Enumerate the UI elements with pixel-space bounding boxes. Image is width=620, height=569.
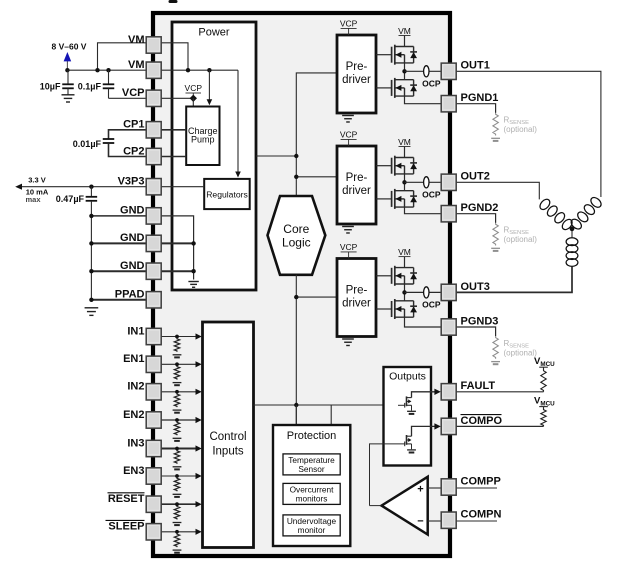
wire OUT1 to motor — [456, 71, 601, 197]
pin VM — [146, 37, 161, 53]
svg-text:COMPO: COMPO — [461, 415, 503, 427]
svg-text:Pre-: Pre- — [346, 61, 368, 73]
svg-text:VMCU: VMCU — [534, 356, 555, 368]
motor winding phase 1 — [569, 196, 603, 231]
block Overcurrent monitors — [283, 483, 340, 504]
ground pulldown RESET — [173, 523, 182, 526]
svg-text:CP1: CP1 — [123, 119, 144, 131]
svg-text:OUT1: OUT1 — [461, 60, 490, 72]
wire gate high 1 — [376, 54, 392, 56]
OCP sense 3 — [424, 287, 429, 298]
label Pre-driver — [342, 285, 371, 310]
pin RESET — [146, 496, 161, 512]
svg-text:Pre-: Pre- — [346, 285, 368, 297]
label pin V3P3 — [118, 176, 145, 188]
pin IN3 — [146, 440, 161, 456]
svg-text:CP2: CP2 — [123, 145, 144, 157]
label VCP predriver — [340, 19, 358, 35]
junction — [175, 474, 179, 478]
resistor Rsense 1 — [493, 113, 498, 136]
resistor Rsense 3 — [493, 336, 498, 359]
wire drain low 3 — [404, 292, 406, 300]
label pin PGND2 — [461, 202, 499, 214]
wire V3P3 output — [21, 186, 147, 188]
block Pre-driver U2 — [337, 146, 376, 224]
svg-text:Outputs: Outputs — [389, 371, 426, 383]
pin PGND2 — [441, 206, 456, 222]
svg-text:PPAD: PPAD — [115, 289, 145, 301]
ground pulldown SLEEP — [173, 550, 182, 553]
wire VCP to charge pump — [192, 98, 194, 106]
ground predriver — [342, 227, 354, 233]
label pin CP2 — [123, 145, 144, 157]
wire drain low 2 — [404, 182, 406, 190]
pin GND — [146, 208, 161, 224]
resistor pulldown RESET — [174, 506, 179, 520]
cropped caption glyph — [169, 0, 178, 3]
svg-text:FAULT: FAULT — [461, 380, 496, 392]
wire gate high 2 — [376, 165, 392, 167]
svg-text:V3P3: V3P3 — [118, 176, 145, 188]
capacitor 0.1uF — [103, 70, 115, 98]
wire PGND3 external — [456, 327, 495, 336]
label Core Logic — [282, 222, 311, 249]
wire RESET row — [161, 503, 198, 505]
junction — [65, 68, 69, 72]
svg-text:COMPN: COMPN — [461, 509, 502, 521]
wire source low 3 — [405, 317, 442, 327]
svg-text:0.1µF: 0.1µF — [78, 81, 102, 91]
label Charge Pump — [188, 126, 218, 145]
resistor pulldown EN2 — [174, 422, 179, 436]
svg-text:+: + — [417, 483, 423, 495]
arrow 3.3V out — [15, 184, 22, 190]
label pin EN3 — [123, 465, 144, 477]
IC body outline — [153, 13, 450, 556]
wire FAULT gate — [398, 404, 405, 406]
svg-text:Control: Control — [209, 431, 246, 443]
ground power block — [188, 282, 198, 288]
transistor open-drain COMPO — [405, 435, 412, 446]
svg-text:IN2: IN2 — [127, 381, 144, 393]
svg-text:Sensor: Sensor — [298, 464, 325, 474]
wire gate low 2 — [376, 198, 392, 200]
pin GND — [146, 235, 161, 251]
svg-text:RESET: RESET — [108, 493, 145, 505]
svg-text:PGND2: PGND2 — [461, 202, 499, 214]
label pin SLEEP — [106, 520, 145, 532]
junction diamond — [190, 95, 197, 102]
block Charge Pump — [186, 107, 219, 166]
wire IN3 row — [161, 448, 198, 450]
label VM bridge 2 — [398, 137, 411, 158]
label pin IN3 — [127, 437, 144, 449]
junction — [175, 447, 179, 451]
svg-text:VCP: VCP — [185, 83, 203, 93]
svg-text:VM: VM — [398, 26, 411, 36]
transistor Q3 high-side — [392, 156, 417, 176]
transistor Q1 high-side — [392, 45, 417, 65]
ground pulldown EN1 — [173, 383, 182, 386]
op-amp comparator — [382, 477, 428, 535]
wire node to OUT3 pin — [405, 291, 442, 293]
pin PPAD — [146, 292, 161, 308]
motor winding phase 2 — [538, 197, 574, 231]
wire source high 1 — [404, 63, 406, 71]
label pin OUT3 — [461, 281, 490, 293]
junction — [175, 502, 179, 506]
label pin VM — [128, 34, 145, 46]
wire to regulators — [237, 70, 239, 173]
label Temperature Sensor — [288, 455, 335, 474]
pin IN2 — [146, 384, 161, 400]
wire core to predriver3 — [296, 296, 337, 298]
arrow EN3 into control — [196, 473, 202, 479]
svg-text:EN2: EN2 — [123, 409, 144, 421]
junction — [294, 295, 298, 299]
wire PGND2 external — [456, 214, 495, 223]
ground pulldown IN2 — [173, 410, 182, 413]
wire VCP internal — [161, 97, 193, 99]
svg-text:Protection: Protection — [287, 430, 337, 442]
wire FAULT drain — [412, 392, 435, 398]
pin OUT1 — [441, 63, 456, 79]
block Pre-driver U1 — [337, 35, 376, 113]
svg-text:VM: VM — [398, 137, 411, 147]
pin COMPP — [441, 479, 456, 495]
svg-text:VM: VM — [398, 247, 411, 257]
svg-text:IN1: IN1 — [127, 325, 144, 337]
svg-text:VCP: VCP — [122, 87, 145, 99]
label pin GND — [120, 260, 145, 272]
svg-text:OCP: OCP — [422, 300, 441, 310]
wire COMPO drain — [412, 426, 435, 436]
wire core bottom rail — [295, 275, 297, 425]
wire FAULT external — [456, 391, 543, 393]
label pin CP1 — [123, 119, 144, 131]
pin CP1 — [146, 122, 161, 138]
junction node OUT2 — [402, 180, 406, 184]
svg-text:PGND1: PGND1 — [461, 92, 499, 104]
wire EN2 row — [161, 419, 198, 421]
wire VCP external — [109, 97, 147, 99]
label VM bridge 3 — [398, 247, 411, 268]
wire OUT2 to motor — [456, 182, 539, 199]
wire core to predriver2 — [296, 176, 337, 178]
arrow IN2 into control — [196, 389, 202, 395]
pin V3P3 — [146, 179, 161, 195]
wire GND3 internal — [161, 270, 194, 272]
transistor Q6 low-side — [392, 299, 417, 319]
resistor pulldown EN3 — [174, 478, 179, 492]
svg-text:driver: driver — [342, 298, 371, 310]
motor winding phase 3 — [566, 238, 578, 267]
junction — [175, 530, 179, 534]
wire source low 2 — [405, 207, 442, 214]
label Rsense 1 — [504, 116, 538, 135]
block Control Inputs — [203, 322, 254, 548]
resistor Rsense 2 — [493, 223, 498, 246]
wire COMPO gate — [370, 444, 405, 506]
wire power to core — [256, 155, 296, 157]
svg-text:driver: driver — [342, 185, 371, 197]
svg-text:OUT3: OUT3 — [461, 281, 490, 293]
block Power — [172, 22, 256, 290]
svg-text:Inputs: Inputs — [212, 445, 244, 457]
block Protection — [273, 425, 350, 546]
wire drain high 1 — [404, 45, 406, 47]
wire source high 3 — [404, 284, 406, 292]
ground 10uF — [62, 95, 75, 102]
junction — [175, 418, 179, 422]
label Rsense 3 — [504, 339, 538, 358]
pin VCP — [146, 90, 161, 106]
label pin GND — [120, 232, 145, 244]
label Pre-driver — [342, 172, 371, 197]
wire PGND1 external — [456, 104, 495, 113]
wire FAULT source — [411, 405, 413, 410]
junction — [207, 68, 211, 72]
label Undervoltage monitor — [287, 516, 337, 535]
pin EN1 — [146, 356, 161, 372]
label Rsense 2 — [504, 226, 538, 245]
wire GND2 internal — [161, 242, 194, 244]
wire node to OUT2 pin — [405, 181, 442, 183]
svg-text:monitor: monitor — [298, 525, 326, 535]
wire EN3 row — [161, 475, 198, 477]
resistor pulldown SLEEP — [174, 533, 179, 547]
pin VM — [146, 62, 161, 78]
arrow RESET into control — [196, 501, 202, 507]
svg-text:Power: Power — [198, 26, 230, 38]
label pin EN2 — [123, 409, 144, 421]
capacitor 0.01uF — [103, 130, 147, 157]
ground pulldown IN3 — [173, 467, 182, 470]
wire CP1 internal — [161, 129, 186, 131]
wire COMPN to comparator — [428, 520, 442, 522]
junction — [294, 154, 298, 158]
svg-text:−: − — [417, 515, 423, 527]
wire COMPO source — [411, 444, 413, 449]
wire EN1 row — [161, 363, 198, 365]
block Core Logic hexagon — [268, 196, 326, 275]
label VCP predriver — [340, 130, 358, 146]
svg-text:GND: GND — [120, 232, 145, 244]
label pin IN1 — [127, 325, 144, 337]
pin OUT2 — [441, 174, 456, 190]
junction — [191, 241, 195, 245]
junction — [175, 390, 179, 394]
svg-text:SLEEP: SLEEP — [108, 521, 144, 533]
label pin FAULT — [461, 380, 496, 392]
pullup stub 1 — [539, 367, 548, 370]
junction — [95, 68, 99, 72]
label pin RESET — [108, 493, 145, 505]
pin EN3 — [146, 468, 161, 484]
svg-text:VM: VM — [128, 59, 145, 71]
wire COMPN stub — [456, 520, 497, 522]
supply arrow VM — [64, 52, 72, 70]
pin PGND1 — [441, 96, 456, 112]
label pin VM — [128, 59, 145, 71]
svg-text:EN1: EN1 — [123, 353, 144, 365]
arrow into charge pump — [207, 99, 213, 105]
resistor pullup COMPO — [541, 409, 546, 427]
wire control to outputs — [254, 404, 405, 406]
svg-text:IN3: IN3 — [127, 437, 144, 449]
wire drain high 2 — [404, 156, 406, 158]
label pin PGND1 — [461, 92, 499, 104]
arrow IN1 into control — [196, 333, 202, 339]
pin COMPO — [441, 418, 456, 434]
transistor Q2 low-side — [392, 78, 417, 98]
arrow into COMPO pin — [434, 423, 440, 429]
arrow EN2 into control — [196, 417, 202, 423]
wire GND3 external — [91, 270, 146, 272]
svg-text:Pump: Pump — [191, 135, 215, 145]
ground COMPO — [407, 450, 416, 453]
junction — [89, 298, 93, 302]
svg-text:VCP: VCP — [340, 19, 358, 29]
svg-text:monitors: monitors — [296, 494, 328, 504]
label pin OUT2 — [461, 171, 490, 183]
junction — [191, 269, 195, 273]
label pin COMPN — [461, 509, 502, 521]
wire stub protection B — [330, 405, 332, 425]
junction node OUT1 — [402, 69, 406, 73]
svg-text:OCP: OCP — [422, 190, 441, 200]
pin FAULT — [441, 384, 456, 400]
ground predriver — [342, 339, 354, 345]
wire source high 2 — [404, 174, 406, 182]
resistor pulldown IN3 — [174, 450, 179, 464]
label pin COMPO — [461, 415, 503, 427]
junction node OUT3 — [402, 290, 406, 294]
transistor Q5 high-side — [392, 266, 417, 286]
pin SLEEP — [146, 524, 161, 540]
wire VM supply rail — [67, 69, 146, 71]
pin COMPN — [441, 512, 456, 528]
label VCP predriver — [340, 242, 358, 258]
ground FAULT — [407, 411, 416, 414]
wire PPAD external — [91, 299, 146, 301]
ground Rsense 2 — [491, 248, 500, 251]
svg-text:OCP: OCP — [422, 79, 441, 89]
svg-text:Core: Core — [283, 222, 309, 236]
capacitor 0.47uF — [86, 187, 98, 300]
wire core to predriver1 — [296, 73, 337, 196]
pin IN1 — [146, 328, 161, 344]
wire IN1 row — [161, 336, 198, 338]
wire COMPP stub — [456, 487, 497, 489]
svg-text:(optional): (optional) — [504, 235, 538, 244]
pin GND — [146, 263, 161, 279]
wire GND2 external — [91, 242, 146, 244]
svg-text:Pre-: Pre- — [346, 172, 368, 184]
svg-text:Logic: Logic — [282, 236, 311, 250]
pin PGND3 — [441, 319, 456, 335]
wire GND1 external — [91, 215, 146, 217]
svg-text:EN3: EN3 — [123, 465, 144, 477]
svg-text:VMCU: VMCU — [534, 396, 555, 408]
svg-text:GND: GND — [120, 260, 145, 272]
wire VM1 external — [98, 43, 147, 70]
pin EN2 — [146, 412, 161, 428]
junction — [175, 335, 179, 339]
arrow into regulators — [235, 172, 241, 178]
resistor pullup FAULT — [541, 369, 546, 391]
block Outputs — [384, 367, 432, 466]
junction — [89, 185, 93, 189]
capacitor 10uF — [62, 70, 74, 94]
svg-text:0.47µF: 0.47µF — [56, 194, 85, 204]
wire gate low 3 — [376, 308, 392, 310]
junction — [294, 403, 298, 407]
OCP sense 2 — [424, 177, 429, 188]
label VM bridge 1 — [398, 26, 411, 47]
pullup stub 2 — [539, 407, 548, 410]
transistor open-drain FAULT — [405, 396, 412, 407]
block Undervoltage monitor — [283, 515, 340, 536]
ground pulldown EN2 — [173, 438, 182, 441]
wire motor center — [571, 229, 573, 238]
svg-text:VCP: VCP — [340, 130, 358, 140]
junction — [106, 68, 110, 72]
label pin EN1 — [123, 353, 144, 365]
label pin GND — [120, 205, 145, 217]
wire COMPO external — [456, 425, 543, 427]
wire CP2 internal — [161, 156, 186, 158]
svg-text:0.01µF: 0.01µF — [73, 139, 102, 149]
svg-text:8 V–60 V: 8 V–60 V — [52, 42, 87, 52]
wire source low 1 — [405, 96, 442, 104]
junction — [89, 241, 93, 245]
wire COMPP to comparator — [428, 487, 442, 489]
wire IN2 row — [161, 391, 198, 393]
arrow SLEEP into control — [196, 529, 202, 535]
svg-text:3.3 V: 3.3 V — [28, 176, 46, 185]
svg-text:GND: GND — [120, 205, 145, 217]
label pin PGND3 — [461, 315, 499, 327]
wire VM internal rail — [161, 69, 238, 71]
resistor pulldown EN1 — [174, 366, 179, 380]
arrow IN3 into control — [196, 445, 202, 451]
wire OUT3 to motor — [456, 267, 572, 292]
label VCP power — [185, 83, 203, 98]
svg-text:driver: driver — [342, 74, 371, 86]
wire node to OUT1 pin — [405, 70, 442, 72]
block Pre-driver U3 — [337, 259, 376, 337]
ground Rsense 3 — [491, 362, 500, 365]
svg-text:VM: VM — [128, 34, 145, 46]
ground pulldown EN3 — [173, 494, 182, 497]
pin OUT3 — [441, 284, 456, 300]
ground left rail — [85, 308, 99, 316]
wire SLEEP row — [161, 531, 198, 533]
label pin VCP — [122, 87, 145, 99]
svg-text:10µF: 10µF — [40, 81, 61, 91]
arrow EN1 into control — [196, 361, 202, 367]
svg-text:(optional): (optional) — [504, 125, 538, 134]
block Regulators — [204, 179, 250, 209]
arrow into FAULT pin — [434, 389, 440, 395]
svg-text:VCP: VCP — [340, 242, 358, 252]
label Pre-driver — [342, 61, 371, 86]
wire gate high 3 — [376, 275, 392, 277]
wire comparator out — [370, 505, 382, 507]
label pin PPAD — [115, 289, 145, 301]
wire GND1 internal — [161, 216, 194, 280]
